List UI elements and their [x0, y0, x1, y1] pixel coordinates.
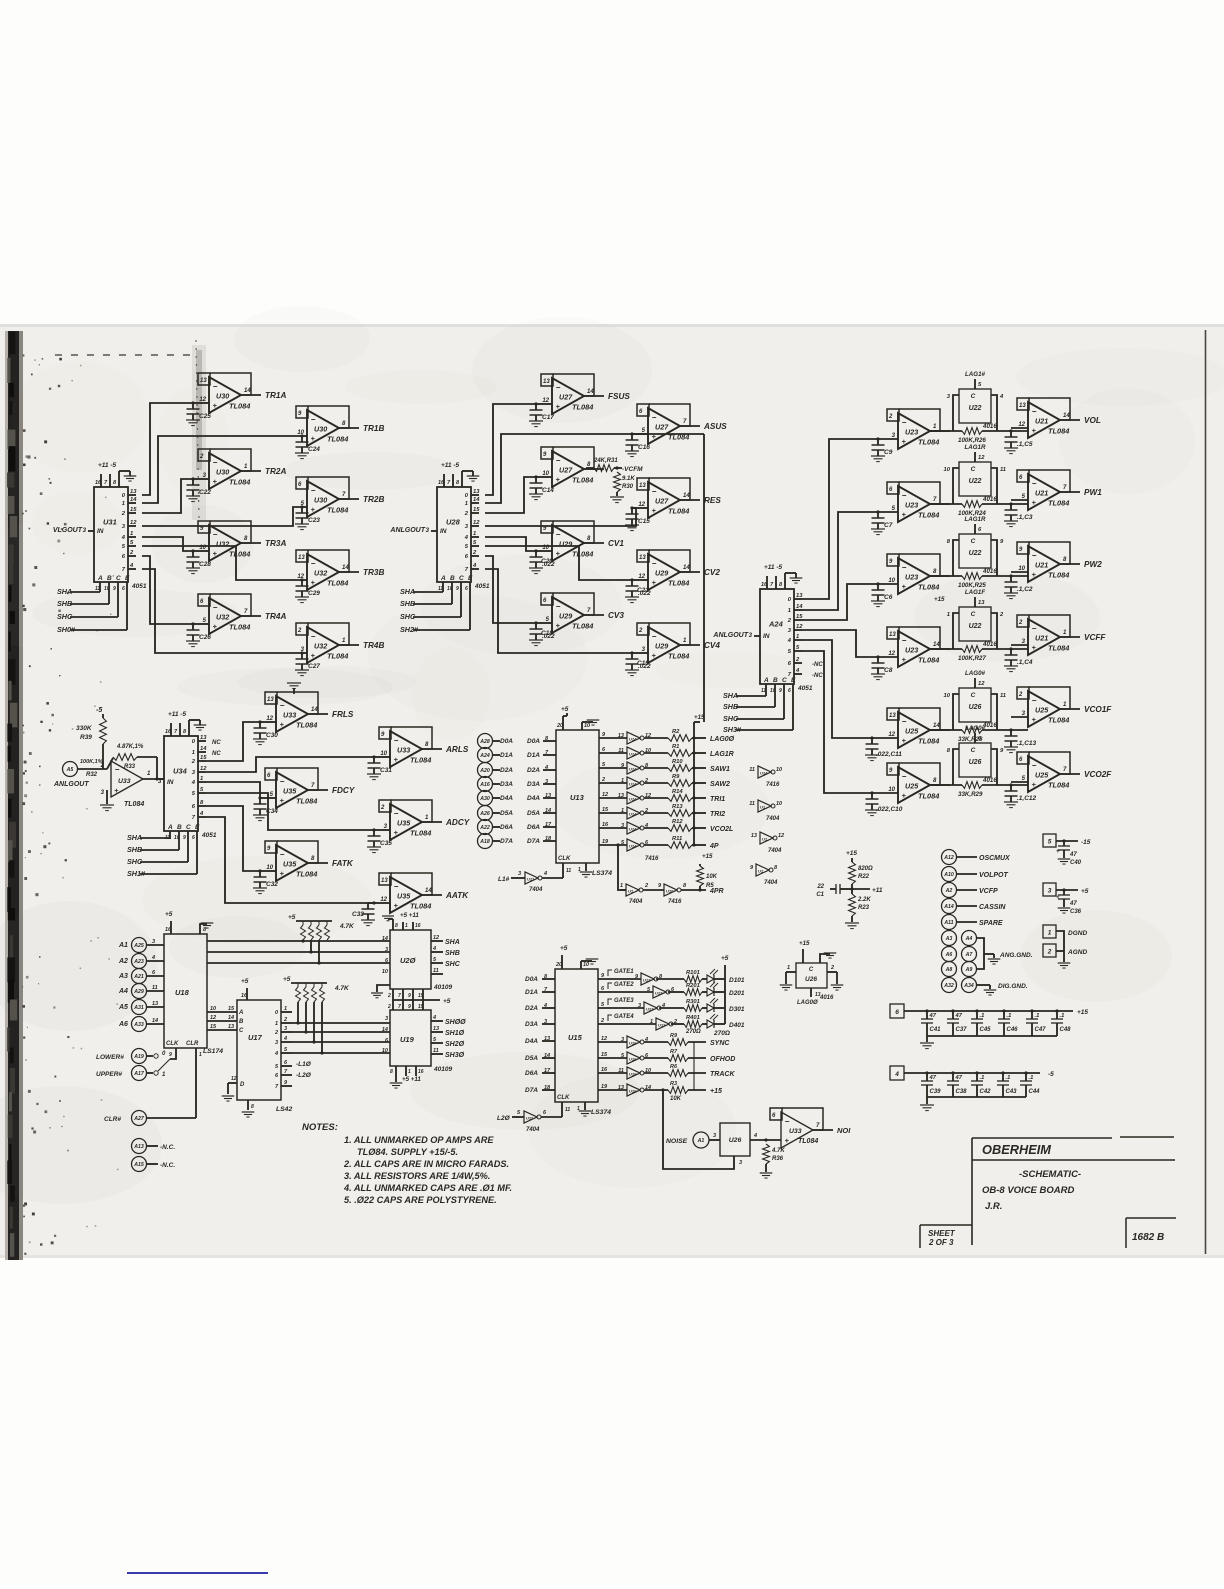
svg-text:1: 1: [465, 501, 468, 507]
svg-text:12: 12: [778, 833, 784, 839]
wire U28 pin14 to ASUS: [485, 434, 632, 503]
svg-text:C22: C22: [199, 489, 211, 496]
svg-text:C: C: [809, 967, 814, 973]
svg-text:A: A: [763, 677, 769, 684]
svg-text:.1: .1: [1060, 1013, 1065, 1019]
svg-text:A: A: [97, 575, 103, 582]
op-amp U33 (ARLS): [391, 727, 432, 749]
connector A2 VCFP: [942, 883, 957, 898]
svg-text:TR1B: TR1B: [363, 424, 384, 433]
svg-text:10: 10: [266, 865, 273, 871]
svg-text:4051: 4051: [201, 832, 217, 839]
svg-text:20: 20: [556, 723, 563, 729]
svg-text:–: –: [556, 456, 561, 465]
svg-text:14: 14: [200, 746, 207, 752]
svg-text:12: 12: [978, 455, 985, 461]
svg-text:270Ω: 270Ω: [713, 1030, 730, 1037]
svg-text:TR3A: TR3A: [265, 539, 286, 548]
svg-text:+: +: [311, 434, 316, 443]
wires U17 to U19 with pullup drops: [292, 1022, 390, 1024]
svg-text:16: 16: [415, 923, 421, 929]
power pin 2 AGND: [1043, 944, 1056, 957]
svg-text:3: 3: [284, 1026, 287, 1032]
svg-text:10: 10: [382, 969, 388, 975]
switch U22 (4016) row PW2: [959, 534, 991, 568]
op-amp U30 (TR2B): [308, 477, 349, 499]
cap .1,C13: [1010, 730, 1012, 736]
LED D101: [707, 975, 714, 983]
svg-text:ASUS: ASUS: [703, 422, 727, 431]
svg-text:C: C: [239, 1028, 244, 1034]
svg-text:12: 12: [601, 1036, 607, 1042]
svg-text:D401: D401: [729, 1022, 745, 1029]
svg-text:U23: U23: [905, 428, 918, 437]
svg-text:13: 13: [889, 632, 896, 638]
svg-text:U33: U33: [283, 711, 296, 720]
mux A24 (4051): [760, 589, 794, 684]
svg-text:2: 2: [283, 1017, 287, 1023]
svg-text:3: 3: [275, 1040, 278, 1046]
svg-text:D0A: D0A: [525, 976, 538, 983]
svg-text:SHC: SHC: [445, 961, 461, 968]
inverter row LAG1R: [599, 752, 627, 754]
svg-text:U11: U11: [527, 877, 535, 882]
inverter row TRI2: [599, 812, 627, 814]
svg-text:NOISE: NOISE: [666, 1138, 688, 1145]
resistor 100K,R26: [930, 430, 962, 432]
svg-text:820Ω: 820Ω: [858, 866, 873, 872]
svg-text:U16: U16: [629, 1089, 637, 1094]
svg-text:R1: R1: [672, 744, 679, 750]
connector pair A8/A9: [942, 962, 957, 977]
svg-text:-N.C.: -N.C.: [160, 1144, 175, 1151]
svg-text:R23: R23: [858, 905, 870, 911]
wire A24 pin5 to U25 row6: [802, 651, 872, 793]
svg-text:12: 12: [130, 520, 137, 526]
svg-text:R6: R6: [670, 1064, 678, 1070]
svg-text:3: 3: [621, 823, 624, 829]
svg-text:.1: .1: [980, 1075, 985, 1081]
connector A12 OSCMUX: [942, 850, 957, 865]
svg-text:7404: 7404: [529, 887, 543, 893]
svg-text:C45: C45: [980, 1027, 992, 1033]
svg-text:C24: C24: [308, 446, 320, 453]
svg-text:C30: C30: [266, 732, 278, 739]
inverter (7416) 4PR b: [643, 889, 664, 891]
svg-text:TL084: TL084: [229, 550, 250, 559]
op-amp U25 (row VCO1F): [899, 708, 940, 730]
svg-text:+: +: [1032, 643, 1037, 652]
svg-text:A33: A33: [133, 1022, 144, 1028]
svg-text:U29: U29: [655, 642, 668, 651]
svg-text:TL084: TL084: [918, 656, 939, 665]
cap C6: [877, 584, 879, 590]
svg-text:SHB: SHB: [127, 845, 142, 854]
spare inverter (7404) row TRI1: [758, 800, 771, 812]
svg-text:+: +: [311, 578, 316, 587]
svg-text:D2A: D2A: [527, 767, 540, 774]
right sheet border: [1205, 330, 1207, 1254]
inverter row SAW2: [599, 782, 627, 784]
svg-text:R36: R36: [772, 1156, 784, 1162]
op-amp U29 (CV2): [649, 550, 690, 572]
svg-text:CV1: CV1: [608, 539, 624, 548]
wire A24 pin1 to U25 row5: [802, 640, 872, 738]
switch U26 (4016) row VCO2F: [959, 743, 991, 777]
svg-text:R7: R7: [670, 1049, 678, 1055]
svg-text:A24: A24: [768, 620, 784, 629]
svg-text:D7A: D7A: [500, 838, 513, 845]
svg-text:–: –: [115, 765, 120, 774]
svg-text:100K,R26: 100K,R26: [958, 437, 986, 444]
cap C33: [368, 902, 374, 904]
smudge column top-left: [192, 345, 206, 520]
svg-text:47: 47: [929, 1013, 937, 1019]
svg-text:C26: C26: [199, 634, 211, 641]
cap .1,C3: [1010, 504, 1012, 510]
svg-text:+5: +5: [560, 945, 568, 952]
svg-text:4: 4: [283, 1036, 287, 1042]
svg-text:U21: U21: [1035, 417, 1048, 426]
LED D401: [707, 1020, 714, 1028]
svg-text:TR4B: TR4B: [363, 641, 384, 650]
op-amp U35 (FATK): [277, 841, 318, 863]
svg-text:13: 13: [200, 378, 207, 384]
connector pair A3/A4: [942, 931, 957, 946]
top-left dashed registration line: [55, 354, 195, 356]
svg-text:TL084: TL084: [229, 623, 250, 632]
svg-text:2: 2: [100, 763, 105, 769]
svg-text:+: +: [394, 901, 399, 910]
svg-text:U32: U32: [216, 540, 229, 549]
cap .1,C2: [1010, 576, 1012, 582]
cap .1,C5: [1010, 431, 1012, 437]
svg-text:D3A: D3A: [525, 1021, 538, 1028]
svg-text:2.2K: 2.2K: [857, 897, 871, 903]
svg-text:OB-8 VOICE BOARD: OB-8 VOICE BOARD: [982, 1185, 1075, 1196]
svg-text:U27: U27: [655, 423, 669, 432]
svg-text:–: –: [394, 736, 399, 745]
svg-text:1: 1: [621, 778, 624, 784]
cap C38: [951, 1071, 954, 1074]
wire U31 pin15 to TR2A: [142, 479, 193, 513]
svg-text:+: +: [114, 786, 119, 795]
svg-text:A11: A11: [943, 920, 953, 926]
U19 bottom pins +5 +11 gnd: [395, 1066, 397, 1082]
svg-text:VCFF: VCFF: [1084, 633, 1106, 642]
svg-text:C7: C7: [884, 522, 893, 529]
svg-text:U19: U19: [400, 1035, 415, 1044]
svg-text:U12: U12: [655, 991, 663, 996]
svg-text:SHB: SHB: [445, 950, 460, 957]
svg-text:+11 -5: +11 -5: [441, 462, 460, 469]
node VCFM: [615, 466, 618, 469]
LED D301: [707, 1004, 714, 1012]
svg-text:2: 2: [274, 1030, 278, 1036]
U13 gnd pin 1: [585, 863, 587, 871]
svg-text:A8: A8: [945, 967, 953, 973]
svg-text:13: 13: [1019, 403, 1026, 409]
svg-text:7404: 7404: [766, 816, 780, 822]
svg-text:C: C: [116, 575, 121, 582]
svg-text:16: 16: [601, 1067, 608, 1073]
svg-text:1: 1: [284, 1006, 287, 1012]
svg-text:11: 11: [566, 868, 571, 874]
connector pair A6/A7: [942, 947, 957, 962]
resistor R39 330K: [102, 714, 104, 718]
svg-text:A29: A29: [133, 989, 144, 995]
cap C8: [877, 657, 879, 663]
svg-text:10: 10: [944, 693, 951, 699]
svg-text:+: +: [556, 549, 561, 558]
svg-text:.1,C4: .1,C4: [1017, 659, 1033, 666]
svg-text:12: 12: [433, 935, 439, 941]
spare inverter (7404) row VCO2L: [760, 832, 773, 844]
svg-text:+5: +5: [721, 955, 729, 962]
svg-text:C: C: [186, 824, 191, 831]
wire U31 pin4 to TR4B: [142, 569, 302, 653]
resistor R401: [684, 1021, 702, 1028]
wire U28 pin2 to CV3: [485, 556, 536, 623]
cap C48: [1055, 1009, 1058, 1012]
svg-text:U1: U1: [758, 869, 764, 874]
cap C7: [877, 512, 879, 518]
svg-text:3: 3: [518, 871, 521, 877]
svg-text:+15: +15: [694, 714, 705, 721]
svg-text:4: 4: [274, 1051, 278, 1057]
svg-text:U1: U1: [762, 837, 768, 842]
svg-text:C15: C15: [638, 518, 650, 525]
svg-text:+: +: [1032, 780, 1037, 789]
svg-text:11: 11: [152, 985, 158, 991]
svg-text:10: 10: [584, 723, 590, 729]
svg-text:U33: U33: [118, 778, 131, 785]
svg-text:C32: C32: [266, 881, 278, 888]
inverter row TRI1: [599, 797, 627, 799]
svg-text:–: –: [280, 850, 285, 859]
svg-text:TL084: TL084: [572, 622, 593, 631]
svg-text:12: 12: [602, 792, 608, 798]
op-amp U30 (TR2A): [210, 449, 251, 471]
svg-text:GATE1: GATE1: [614, 969, 634, 975]
svg-text:B: B: [107, 575, 112, 582]
svg-text:16: 16: [165, 729, 172, 735]
svg-text:+5: +5: [561, 706, 569, 713]
wire A24 pin14 to U23 row2: [802, 512, 878, 610]
svg-text:A3: A3: [118, 973, 128, 980]
svg-text:E: E: [125, 575, 130, 582]
svg-text:SH1Ø: SH1Ø: [445, 1030, 465, 1037]
svg-text:2: 2: [601, 777, 605, 783]
svg-text:14: 14: [152, 1018, 158, 1024]
svg-text:9: 9: [779, 688, 782, 694]
svg-text:.1,C13: .1,C13: [1017, 740, 1037, 747]
svg-text:U32: U32: [314, 569, 327, 578]
svg-text:C39: C39: [930, 1089, 942, 1095]
svg-text:–: –: [902, 418, 907, 427]
svg-text:+: +: [394, 828, 399, 837]
svg-text:C33: C33: [352, 911, 364, 918]
svg-text:GATE3: GATE3: [614, 998, 634, 1004]
svg-text:A6: A6: [945, 952, 953, 958]
svg-text:D1A: D1A: [500, 752, 513, 759]
svg-text:C19: C19: [637, 660, 649, 667]
svg-text:12: 12: [231, 1076, 237, 1082]
svg-text:.1,C3: .1,C3: [1017, 514, 1033, 521]
svg-text:ANLGOUT: ANLGOUT: [389, 527, 425, 534]
svg-text:CV2: CV2: [704, 568, 720, 577]
svg-text:LAG0#: LAG0#: [965, 725, 986, 732]
svg-text:19: 19: [602, 839, 609, 845]
svg-text:VCO2F: VCO2F: [1084, 770, 1112, 779]
svg-text:U33: U33: [397, 746, 410, 755]
svg-text:R401: R401: [686, 1015, 700, 1021]
svg-text:7: 7: [398, 993, 401, 999]
scan mottling: [283, 452, 461, 490]
resistor 100K,R24: [930, 503, 962, 505]
cap C42: [975, 1071, 978, 1074]
svg-text:C35: C35: [380, 840, 392, 847]
svg-text:4.7K: 4.7K: [771, 1148, 785, 1154]
svg-text:–: –: [902, 563, 907, 572]
wire U34 pin15 to FRLS: [206, 722, 260, 761]
svg-text:C28: C28: [199, 561, 211, 568]
svg-text:–: –: [902, 491, 907, 500]
svg-text:U26: U26: [969, 704, 982, 711]
svg-text:U26: U26: [805, 976, 817, 983]
svg-text:A28: A28: [479, 739, 490, 745]
rail joining soft rows: [693, 1042, 695, 1090]
svg-text:E: E: [468, 575, 473, 582]
op-amp U23 (row VCFF): [899, 627, 940, 649]
svg-text:TL084: TL084: [572, 550, 593, 559]
+5 rail between U20 and U19: [393, 999, 440, 1001]
svg-text:U27: U27: [559, 393, 573, 402]
svg-text:U29: U29: [559, 540, 572, 549]
svg-text:2: 2: [600, 1018, 604, 1024]
svg-text:VOLPOT: VOLPOT: [979, 872, 1009, 879]
svg-text:22: 22: [816, 884, 824, 890]
svg-text:U10: U10: [666, 889, 674, 894]
wire from ASUS input region down to A24 area: [632, 433, 704, 435]
svg-text:4P: 4P: [709, 843, 719, 850]
svg-text:TL084: TL084: [410, 829, 431, 838]
svg-text:10: 10: [888, 578, 895, 584]
svg-text:NOI: NOI: [837, 1126, 851, 1135]
svg-text:TL084: TL084: [668, 507, 689, 516]
svg-text:C14: C14: [542, 487, 554, 494]
resistor R14: [668, 795, 692, 802]
svg-text:VOL: VOL: [1084, 416, 1101, 425]
svg-text:8: 8: [251, 1104, 254, 1110]
spare inverter (7404) row 4PR: [756, 864, 769, 876]
svg-text:U12: U12: [643, 978, 651, 983]
wire U34 pin4 to AATK: [206, 817, 374, 903]
svg-text:B: B: [773, 677, 778, 684]
svg-text:1: 1: [122, 501, 125, 507]
svg-text:4051: 4051: [131, 583, 147, 590]
svg-text:L2Ø: L2Ø: [497, 1115, 511, 1122]
svg-text:R13: R13: [672, 804, 683, 810]
svg-text:+: +: [311, 651, 316, 660]
svg-text:E: E: [791, 677, 796, 684]
svg-text:4016: 4016: [982, 777, 997, 784]
op-amp U23 (row VOL): [899, 409, 940, 431]
svg-text:R9: R9: [672, 774, 680, 780]
svg-text:ANLGOUT: ANLGOUT: [712, 632, 748, 639]
svg-text:CLR: CLR: [186, 1041, 199, 1047]
svg-text:A9: A9: [965, 967, 973, 973]
svg-text:U21: U21: [1035, 489, 1048, 498]
svg-text:A17: A17: [133, 1071, 145, 1077]
svg-text:TL084: TL084: [296, 797, 317, 806]
svg-text:U25: U25: [905, 727, 919, 736]
switch U26 (4016) noise: [720, 1123, 750, 1156]
svg-text:U14: U14: [629, 737, 637, 742]
inverter row SAW1: [599, 767, 627, 769]
svg-text:270Ω: 270Ω: [685, 1029, 701, 1035]
U20 right outputs SHA SHB SHC: [431, 940, 443, 942]
cap .1,C4: [1010, 649, 1012, 655]
spare inverter U14 (7416) row SAW1: [758, 766, 771, 778]
svg-text:4016: 4016: [819, 995, 834, 1001]
svg-text:9: 9: [169, 1052, 172, 1058]
svg-text:4PR: 4PR: [709, 888, 724, 895]
op-amp U35 (ADCY): [391, 800, 432, 822]
svg-text:C: C: [971, 393, 976, 400]
svg-text:14: 14: [683, 493, 690, 499]
U17 +5 pin 16: [246, 988, 248, 1000]
svg-text:CV4: CV4: [704, 641, 720, 650]
svg-text:A20: A20: [479, 768, 490, 774]
svg-text:C47: C47: [1035, 1027, 1047, 1033]
svg-text:U22: U22: [969, 478, 982, 485]
svg-text:10: 10: [888, 787, 895, 793]
svg-text:D101: D101: [729, 977, 745, 984]
row TRACK: [598, 1072, 627, 1074]
svg-text:A4: A4: [965, 936, 973, 942]
wires U18 to U17 ABC: [207, 1011, 237, 1013]
svg-text:IN: IN: [763, 633, 770, 640]
op-amp U30 (TR1B): [308, 406, 349, 428]
switch U26 (4016) row VCO1F: [959, 688, 991, 722]
svg-text:+15: +15: [710, 1088, 722, 1095]
svg-text:+: +: [213, 477, 218, 486]
wire U34 pin8 to FATK: [206, 806, 260, 871]
svg-text:+: +: [1032, 426, 1037, 435]
svg-text:TR4A: TR4A: [265, 612, 286, 621]
op-amp U29 (CV1): [553, 521, 594, 543]
svg-text:U34: U34: [173, 767, 188, 776]
svg-text:CLK: CLK: [557, 1095, 570, 1101]
svg-text:11: 11: [433, 1048, 439, 1054]
svg-text:4: 4: [432, 946, 436, 952]
svg-text:U23: U23: [905, 646, 918, 655]
op-amp U35 (AATK): [391, 873, 432, 895]
svg-text:2: 2: [1047, 949, 1052, 956]
svg-text:R2: R2: [672, 729, 680, 735]
connector A10 VOLPOT: [942, 867, 957, 882]
svg-text:13: 13: [228, 1024, 234, 1030]
svg-text:U29: U29: [559, 612, 572, 621]
svg-text:A: A: [167, 824, 173, 831]
svg-text:R30: R30: [622, 484, 634, 490]
svg-text:TL084: TL084: [918, 438, 939, 447]
svg-text:A23: A23: [133, 959, 144, 965]
svg-text:D4A: D4A: [527, 795, 540, 802]
svg-text:+: +: [1032, 715, 1037, 724]
op-amp U27 (FSUS): [553, 374, 594, 396]
